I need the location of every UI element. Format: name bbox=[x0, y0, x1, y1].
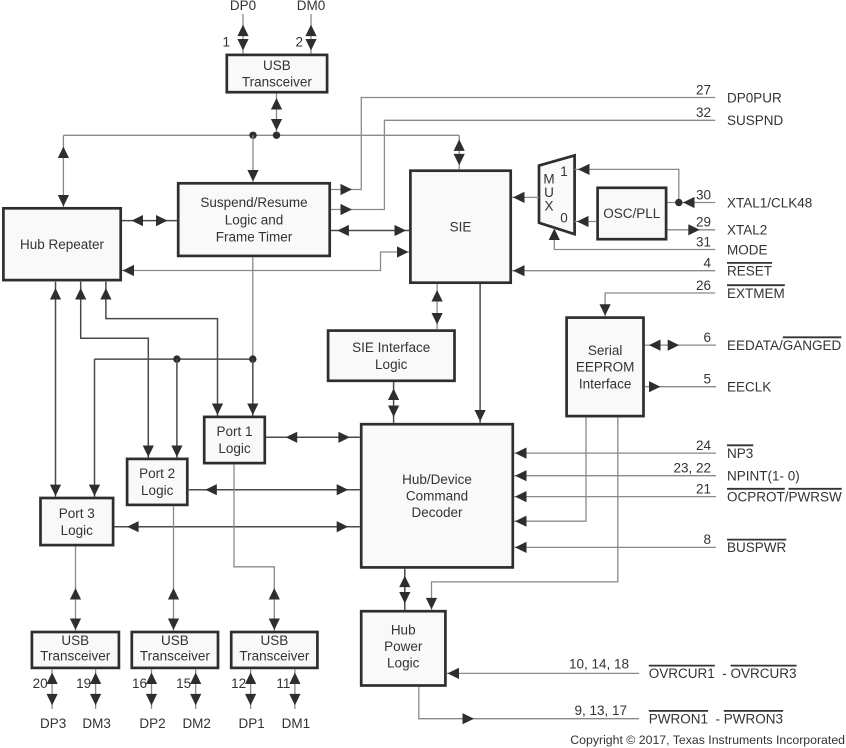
svg-text:MODE: MODE bbox=[727, 242, 768, 257]
svg-text:SIE: SIE bbox=[450, 219, 472, 234]
junction: rail / transceiver 0 branch bbox=[273, 132, 280, 139]
wire: Hub Repeater - SIE bbox=[122, 252, 409, 271]
wire: port rail to Port 2 Logic bbox=[176, 359, 178, 457]
wire: port rail to Port 3 Logic bbox=[94, 359, 96, 497]
pin number 12 bbox=[231, 676, 246, 691]
svg-text:DM1: DM1 bbox=[282, 716, 311, 731]
pin number 1 bbox=[222, 34, 230, 49]
arrowheads: HubRepeater-Port3 bidirectional bbox=[50, 288, 61, 496]
svg-text:USB: USB bbox=[161, 633, 189, 648]
svg-text:Power: Power bbox=[384, 639, 423, 654]
svg-text:20: 20 bbox=[33, 676, 48, 691]
pin name NP3 bbox=[727, 445, 753, 461]
pin number 5 bbox=[703, 372, 711, 387]
svg-text:11: 11 bbox=[276, 676, 290, 691]
svg-text:8: 8 bbox=[703, 532, 711, 547]
svg-text:9, 13, 17: 9, 13, 17 bbox=[574, 703, 627, 718]
arrowhead: XTAL1 into OSC/PLL bbox=[683, 197, 695, 208]
svg-text:32: 32 bbox=[696, 105, 711, 120]
wire: DM0 to USB transceiver 0 bbox=[310, 14, 312, 54]
wire: port rail bbox=[95, 358, 253, 360]
svg-text:Frame Timer: Frame Timer bbox=[216, 230, 293, 245]
svg-text:NPINT(1- 0): NPINT(1- 0) bbox=[727, 469, 800, 484]
arrowhead: into Port 2 top bbox=[171, 446, 182, 458]
wire: EXTMEM net (pin 26) bbox=[605, 293, 715, 316]
svg-text:USB: USB bbox=[261, 633, 289, 648]
wire: SIE to Command Decoder bbox=[479, 284, 481, 423]
pin number 19 bbox=[76, 676, 91, 691]
pin name SUSPND bbox=[727, 113, 784, 128]
block: Hub Power Logic bbox=[361, 611, 445, 685]
svg-text:Hub: Hub bbox=[391, 623, 416, 638]
pin name OVRCUR1 - OVRCUR3 bbox=[649, 666, 797, 682]
svg-text:26: 26 bbox=[696, 278, 711, 293]
pin number 29 bbox=[696, 215, 711, 230]
wire: rail to Suspend/Resume top bbox=[252, 135, 254, 182]
wire: Port 1 Logic to transceiver 1 bbox=[234, 464, 274, 630]
pin name DM3 bbox=[82, 716, 111, 731]
svg-text:EEPROM: EEPROM bbox=[576, 360, 635, 375]
svg-text:4: 4 bbox=[703, 256, 711, 271]
arrowheads: SuspendResume-SIE bidirectional bbox=[337, 225, 406, 236]
pin name MODE bbox=[727, 242, 768, 257]
wire: OVRCUR net (pins 10,14,18) bbox=[447, 672, 639, 674]
arrowhead: into SIE left bbox=[397, 246, 409, 257]
pin name EXTMEM bbox=[727, 285, 785, 301]
svg-text:XTAL1/CLK48: XTAL1/CLK48 bbox=[727, 195, 812, 210]
arrowheads: HubRepeater-Port2 bidirectional bbox=[75, 288, 154, 457]
arrowheads: EEDATA bidirectional bbox=[649, 340, 679, 351]
svg-text:15: 15 bbox=[176, 676, 191, 691]
block: SIE bbox=[410, 171, 510, 283]
svg-text:Serial: Serial bbox=[588, 343, 623, 358]
wire: EEDATA/GANGED net (pin 6) bbox=[645, 344, 716, 346]
junction: rail / suspend-resume branch bbox=[249, 132, 256, 139]
arrowheads: Port2-Decoder bidirectional bbox=[205, 484, 348, 495]
arrowhead: OVRCUR into Hub Power bbox=[448, 668, 460, 679]
pin name DP2 bbox=[139, 716, 165, 731]
wire: DP3 pin stub bbox=[51, 669, 53, 709]
pin number 32 bbox=[696, 105, 711, 120]
wire: MUX output to SIE bbox=[512, 196, 539, 198]
svg-text:10, 14, 18: 10, 14, 18 bbox=[569, 656, 629, 671]
wire: XTAL2 net (pin 29) bbox=[667, 229, 715, 231]
wire: SUSPND net (pin 32) bbox=[331, 120, 715, 209]
block: Port 2 Logic bbox=[127, 459, 187, 505]
svg-text:DP0: DP0 bbox=[230, 0, 256, 13]
arrowhead: into MUX input 0 bbox=[577, 216, 589, 227]
block: Hub Repeater bbox=[3, 208, 120, 280]
svg-text:SUSPND: SUSPND bbox=[727, 113, 784, 128]
arrowheads: DM2 bidirectional bbox=[190, 673, 201, 706]
arrowheads: DM0 bidirectional bbox=[305, 25, 316, 51]
junction: XTAL1 branch to MUX bbox=[675, 199, 682, 206]
arrowheads: DM3 bidirectional bbox=[90, 673, 101, 706]
pin name PWRON1 - PWRON3 bbox=[649, 711, 783, 727]
pin number 2 bbox=[295, 34, 303, 49]
svg-text:Transceiver: Transceiver bbox=[239, 649, 310, 664]
block: USB Transceiver (upstream port 0) bbox=[227, 55, 327, 92]
arrowheads: Port3-Decoder bidirectional bbox=[127, 521, 348, 532]
wire: USB transceiver 0 to rail bbox=[276, 94, 278, 136]
pin number 6 bbox=[703, 330, 711, 345]
wire: NPINT net (pins 23,22) bbox=[514, 475, 716, 477]
wire: MODE select net (pin 31) bbox=[554, 229, 715, 250]
svg-text:DM3: DM3 bbox=[82, 716, 111, 731]
wire: XTAL1/CLK48 net (pin 30) bbox=[667, 202, 715, 204]
pin number 31 bbox=[696, 234, 711, 249]
svg-text:BUSPWR: BUSPWR bbox=[727, 540, 787, 555]
wire: Port 2 Logic - Command Decoder bbox=[189, 489, 360, 491]
arrowhead: into MUX select bbox=[549, 229, 560, 241]
svg-text:1: 1 bbox=[222, 34, 230, 49]
svg-text:Transceiver: Transceiver bbox=[140, 649, 211, 664]
block: Hub/Device Command Decoder bbox=[361, 424, 513, 567]
arrowheads: rail-Hub Repeater bidirectional bbox=[58, 147, 69, 207]
arrowheads: DP0 bidirectional bbox=[237, 25, 248, 51]
wire: NP3 net (pin 24) bbox=[514, 452, 716, 454]
arrowhead: BUSPWR into Decoder bbox=[515, 542, 527, 553]
pin name RESET bbox=[727, 263, 772, 279]
wire: DM3 pin stub bbox=[95, 669, 97, 709]
svg-text:Logic and: Logic and bbox=[225, 212, 284, 227]
svg-text:OCPROT/PWRSW: OCPROT/PWRSW bbox=[727, 489, 842, 504]
pin name EECLK bbox=[727, 380, 771, 395]
pin name DP0 bbox=[230, 0, 256, 13]
wire: DM1 pin stub bbox=[294, 669, 296, 709]
junction: port rail / port 1 branch bbox=[249, 355, 256, 362]
pin number 4 bbox=[703, 256, 711, 271]
pin name EEDATA/GANGED bbox=[727, 337, 842, 353]
pin name BUSPWR bbox=[727, 540, 787, 556]
arrowhead: XTAL2 out bbox=[688, 224, 700, 235]
block: SIE Interface Logic bbox=[328, 331, 454, 381]
arrowheads: Port1-transceiver1 bidirectional bbox=[269, 588, 280, 630]
svg-text:DP1: DP1 bbox=[238, 716, 264, 731]
wire: SIE - SIE Interface Logic bbox=[436, 284, 438, 329]
arrowhead: into MUX input 1 bbox=[578, 164, 590, 175]
arrowhead: into Port 1 top bbox=[247, 404, 258, 416]
pin name DM1 bbox=[282, 716, 311, 731]
wire: DP2 pin stub bbox=[151, 669, 153, 709]
svg-text:Logic: Logic bbox=[141, 483, 174, 498]
wire: DP0 to USB transceiver 0 bbox=[242, 14, 244, 54]
pin name NPINT(1- 0) bbox=[727, 469, 800, 484]
svg-text:NP3: NP3 bbox=[727, 446, 753, 461]
svg-text:Logic: Logic bbox=[387, 656, 420, 671]
copyright notice bbox=[570, 733, 845, 747]
mux: clock source MUX bbox=[539, 155, 575, 234]
arrowheads: rail-SIE bidirectional bbox=[454, 139, 465, 165]
svg-text:RESET: RESET bbox=[727, 264, 772, 279]
pin numbers 9, 13, 17 bbox=[574, 703, 627, 718]
wire: Suspend/Resume - SIE bbox=[331, 230, 409, 232]
wire: DP0PUR net (pin 27) bbox=[331, 98, 715, 190]
arrowhead: into Hub Repeater bbox=[123, 265, 135, 276]
arrowhead: into Port 3 top bbox=[89, 485, 100, 497]
pin name XTAL2 bbox=[727, 223, 767, 238]
wire: Command Decoder - Hub Power Logic bbox=[404, 569, 406, 610]
pin number 30 bbox=[696, 187, 711, 202]
pin name OCPROT/PWRSW bbox=[727, 489, 842, 505]
svg-text:DM2: DM2 bbox=[182, 716, 211, 731]
svg-text:OVRCUR1 - OVRCUR3: OVRCUR1 - OVRCUR3 bbox=[649, 666, 797, 681]
arrowheads: Port2-transceiver2 bidirectional bbox=[168, 588, 179, 630]
arrowheads: DM1 bidirectional bbox=[289, 673, 300, 706]
svg-text:16: 16 bbox=[132, 676, 147, 691]
pin number 15 bbox=[176, 676, 191, 691]
svg-text:Logic: Logic bbox=[61, 523, 94, 538]
svg-text:Port 3: Port 3 bbox=[59, 506, 95, 521]
svg-text:1: 1 bbox=[560, 164, 568, 179]
svg-text:EXTMEM: EXTMEM bbox=[727, 286, 785, 301]
block: Port 1 Logic bbox=[204, 417, 265, 463]
junction: port rail / port 2 branch bbox=[173, 355, 180, 362]
svg-text:Hub Repeater: Hub Repeater bbox=[20, 237, 105, 252]
svg-text:Port 2: Port 2 bbox=[139, 466, 175, 481]
pin number 16 bbox=[132, 676, 147, 691]
svg-text:XTAL2: XTAL2 bbox=[727, 223, 767, 238]
wire: OCPROT/PWRSW net (pin 21) bbox=[514, 496, 716, 498]
wire: MUX input 1 from XTAL1 bbox=[575, 169, 679, 202]
wire: MUX input 0 from OSC/PLL bbox=[575, 221, 597, 223]
arrowhead: into Suspend/Resume top bbox=[247, 170, 258, 182]
svg-text:Port 1: Port 1 bbox=[216, 424, 252, 439]
arrowhead: SUSPND out bbox=[341, 204, 353, 215]
arrowhead: EECLK out bbox=[649, 381, 661, 392]
wire: EEPROM interface to Decoder bbox=[514, 417, 586, 521]
block: USB Transceiver (port 1) bbox=[231, 632, 317, 668]
wire: Hub Repeater - Port 1 Logic bbox=[106, 282, 218, 416]
arrowhead: NPINT into Decoder bbox=[515, 470, 527, 481]
svg-text:SIE Interface: SIE Interface bbox=[352, 340, 430, 355]
arrowheads: DP3 bidirectional bbox=[47, 673, 58, 706]
svg-text:Decoder: Decoder bbox=[411, 505, 463, 520]
block: Port 3 Logic bbox=[41, 498, 114, 545]
wire: DP1 pin stub bbox=[250, 669, 252, 709]
svg-text:DM0: DM0 bbox=[297, 0, 326, 13]
pin numbers 23, 22 bbox=[673, 461, 711, 476]
arrowhead: EEPROM into Decoder right bbox=[515, 516, 527, 527]
wire: Port 3 Logic to transceiver 3 bbox=[75, 546, 77, 630]
pin numbers 10, 14, 18 bbox=[569, 656, 629, 671]
svg-text:Hub/Device: Hub/Device bbox=[402, 472, 472, 487]
svg-text:DP3: DP3 bbox=[40, 716, 66, 731]
pin number 24 bbox=[696, 438, 712, 453]
arrowhead: into Decoder top from SIE bbox=[475, 410, 486, 422]
svg-text:23, 22: 23, 22 bbox=[673, 461, 711, 476]
block: USB Transceiver (port 2) bbox=[132, 632, 218, 668]
pin number 21 bbox=[696, 481, 711, 496]
svg-text:Copyright © 2017, Texas Instru: Copyright © 2017, Texas Instruments Inco… bbox=[570, 733, 845, 747]
wire: upstream data rail bbox=[63, 134, 459, 136]
wire: EECLK net (pin 5) bbox=[645, 386, 716, 388]
pin number 11 bbox=[276, 676, 290, 691]
pin number 20 bbox=[33, 676, 48, 691]
svg-text:USB: USB bbox=[263, 58, 291, 73]
arrowhead: RESET into SIE bbox=[513, 265, 525, 276]
svg-text:DP0PUR: DP0PUR bbox=[727, 90, 782, 105]
svg-text:12: 12 bbox=[231, 676, 246, 691]
wire: Port 1 Logic - Command Decoder bbox=[266, 436, 360, 438]
pin name DP0PUR bbox=[727, 90, 782, 105]
svg-text:Logic: Logic bbox=[218, 441, 251, 456]
block: Serial EEPROM Interface bbox=[567, 318, 644, 417]
arrowhead: MUX output into SIE bbox=[513, 192, 525, 203]
svg-text:0: 0 bbox=[560, 211, 568, 226]
wire: port rail to Port 1 Logic bbox=[252, 359, 254, 415]
wire: SIE Interface Logic - Command Decoder bbox=[393, 382, 395, 423]
wire: EEPROM interface to Hub Power Logic bbox=[432, 417, 618, 610]
pin name DP3 bbox=[40, 716, 66, 731]
arrowhead: EXTMEM into EEPROM interface bbox=[600, 304, 611, 316]
svg-text:OSC/PLL: OSC/PLL bbox=[603, 206, 661, 221]
arrowheads: Port3-transceiver3 bidirectional bbox=[70, 588, 81, 630]
svg-text:29: 29 bbox=[696, 215, 711, 230]
block: USB Transceiver (port 3) bbox=[32, 632, 119, 668]
arrowhead: DP0PUR out bbox=[341, 184, 353, 195]
svg-text:19: 19 bbox=[76, 676, 91, 691]
wire: Suspend/Resume bottom to port rail bbox=[252, 257, 254, 359]
pin name DM0 bbox=[297, 0, 326, 13]
wire: rail to Hub Repeater top bbox=[62, 135, 64, 207]
arrowhead: NP3 into Decoder bbox=[515, 448, 527, 459]
wire: RESET net (pin 4) bbox=[512, 270, 715, 272]
svg-text:Suspend/Resume: Suspend/Resume bbox=[200, 195, 307, 210]
svg-text:6: 6 bbox=[703, 330, 711, 345]
wire: DM2 pin stub bbox=[195, 669, 197, 709]
pin number 26 bbox=[696, 278, 711, 293]
svg-text:2: 2 bbox=[295, 34, 303, 49]
svg-text:Transceiver: Transceiver bbox=[40, 649, 111, 664]
arrowheads: SIE-SIEInterface bidirectional bbox=[432, 290, 443, 325]
pin name DM2 bbox=[182, 716, 211, 731]
arrowheads: DP2 bidirectional bbox=[146, 673, 157, 706]
wire: Hub Repeater - Port 2 Logic bbox=[81, 282, 149, 458]
arrowhead: PWRON out bbox=[463, 713, 475, 724]
svg-text:EECLK: EECLK bbox=[727, 380, 771, 395]
pin number 27 bbox=[696, 82, 711, 97]
wire: BUSPWR net (pin 8) bbox=[514, 546, 716, 548]
wire: Port 3 Logic - Command Decoder bbox=[114, 526, 359, 528]
svg-text:Command: Command bbox=[406, 489, 468, 504]
svg-text:21: 21 bbox=[696, 481, 711, 496]
wire: rail to SIE top bbox=[458, 135, 460, 169]
svg-text:Logic: Logic bbox=[375, 357, 408, 372]
arrowheads: transceiver0-rail bidirectional bbox=[271, 98, 282, 131]
wire: Hub Repeater - Suspend/Resume bbox=[122, 220, 177, 222]
svg-text:24: 24 bbox=[696, 438, 712, 453]
arrowheads: Port1-Decoder bidirectional bbox=[286, 432, 350, 443]
wire: Hub Repeater - Port 3 Logic bbox=[55, 282, 57, 497]
arrowheads: Decoder-HubPower bidirectional bbox=[399, 576, 410, 604]
arrowheads: HubRepeater-SuspendResume bidirectional bbox=[132, 215, 168, 226]
pin name DP1 bbox=[238, 716, 264, 731]
svg-text:Transceiver: Transceiver bbox=[242, 74, 313, 89]
svg-text:31: 31 bbox=[696, 234, 711, 249]
arrowheads: SIEInterface-Decoder bidirectional bbox=[388, 389, 399, 418]
svg-text:PWRON1 - PWRON3: PWRON1 - PWRON3 bbox=[649, 712, 783, 727]
arrowhead: OCPROT into Decoder bbox=[515, 491, 527, 502]
block: Suspend/Resume Logic and Frame Timer bbox=[178, 183, 330, 256]
arrowheads: HubRepeater-Port1 bidirectional bbox=[100, 288, 223, 415]
svg-text:30: 30 bbox=[696, 187, 711, 202]
pin number 8 bbox=[703, 532, 711, 547]
svg-text:27: 27 bbox=[696, 82, 711, 97]
svg-text:Interface: Interface bbox=[579, 376, 632, 391]
pin name XTAL1/CLK48 bbox=[727, 195, 812, 210]
svg-text:USB: USB bbox=[61, 633, 89, 648]
svg-text:5: 5 bbox=[703, 372, 711, 387]
block: OSC/PLL bbox=[598, 188, 667, 239]
arrowhead: into Hub Power top bbox=[426, 598, 437, 610]
svg-text:EEDATA/GANGED: EEDATA/GANGED bbox=[727, 338, 842, 353]
svg-text:DP2: DP2 bbox=[139, 716, 165, 731]
svg-text:X: X bbox=[544, 198, 553, 213]
wire: Port 2 Logic to transceiver 2 bbox=[173, 506, 175, 630]
arrowheads: DP1 bidirectional bbox=[245, 673, 256, 706]
wire: PWRON net (pins 9,13,17) bbox=[419, 687, 639, 719]
